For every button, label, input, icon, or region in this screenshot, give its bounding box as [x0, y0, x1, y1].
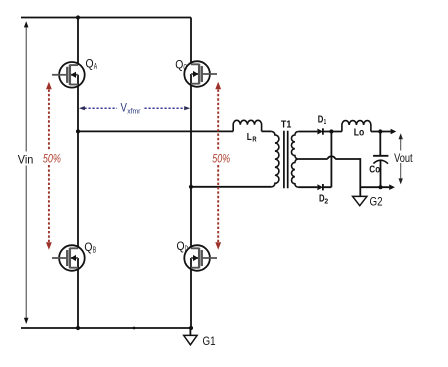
svg-text:Q: Q — [86, 58, 94, 70]
svg-text:Q: Q — [177, 241, 185, 253]
svg-text:Lo: Lo — [354, 127, 365, 139]
svg-text:50%: 50% — [43, 154, 61, 166]
svg-text:C: C — [183, 63, 187, 72]
svg-text:V: V — [121, 103, 128, 115]
svg-text:D: D — [185, 244, 189, 253]
svg-text:A: A — [94, 62, 98, 71]
svg-text:G2: G2 — [370, 195, 383, 209]
svg-text:L: L — [247, 132, 252, 143]
svg-text:xfmr: xfmr — [127, 109, 141, 116]
svg-text:Vin: Vin — [18, 152, 34, 166]
svg-text:Q: Q — [175, 59, 183, 71]
svg-text:R: R — [252, 134, 257, 143]
svg-text:50%: 50% — [212, 154, 230, 166]
svg-text:1: 1 — [324, 117, 326, 126]
svg-text:2: 2 — [324, 196, 328, 205]
svg-text:T1: T1 — [281, 120, 292, 131]
svg-text:Q: Q — [84, 242, 92, 254]
svg-text:B: B — [93, 245, 96, 254]
svg-text:D: D — [318, 115, 324, 126]
svg-text:Vout: Vout — [394, 151, 413, 165]
svg-text:G1: G1 — [203, 334, 216, 348]
svg-text:Co: Co — [369, 165, 380, 176]
